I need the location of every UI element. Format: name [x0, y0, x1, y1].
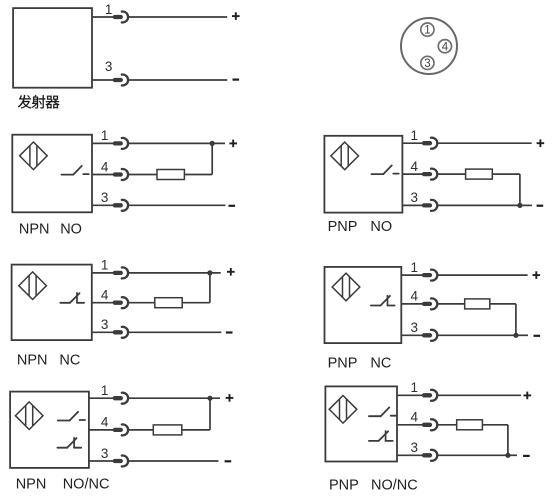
svg-text:3: 3 — [101, 190, 109, 205]
svg-text:PNP: PNP — [328, 219, 358, 235]
svg-text:PNP: PNP — [329, 477, 359, 493]
svg-text:4: 4 — [101, 288, 109, 303]
svg-text:1: 1 — [105, 2, 113, 17]
svg-text:NO/NC: NO/NC — [63, 476, 110, 492]
svg-text:NPN: NPN — [19, 221, 50, 237]
svg-text:4: 4 — [101, 159, 109, 174]
svg-text:1: 1 — [410, 128, 418, 143]
svg-text:1: 1 — [424, 25, 430, 37]
svg-text:4: 4 — [442, 41, 449, 53]
svg-text:3: 3 — [410, 190, 418, 205]
svg-text:1: 1 — [410, 260, 418, 275]
svg-text:3: 3 — [101, 446, 109, 461]
svg-text:PNP: PNP — [328, 355, 358, 371]
svg-text:NC: NC — [59, 353, 80, 369]
svg-text:3: 3 — [101, 317, 109, 332]
svg-text:4: 4 — [410, 159, 418, 174]
svg-text:1: 1 — [410, 380, 418, 395]
svg-text:1: 1 — [101, 128, 109, 143]
svg-text:3: 3 — [424, 58, 430, 70]
svg-text:NPN: NPN — [17, 353, 48, 369]
svg-text:4: 4 — [410, 410, 418, 425]
svg-text:NO: NO — [370, 219, 392, 235]
svg-text:NO/NC: NO/NC — [371, 477, 418, 493]
svg-text:NO: NO — [60, 221, 82, 237]
svg-text:NPN: NPN — [16, 476, 47, 492]
svg-text:3: 3 — [410, 320, 418, 335]
svg-text:1: 1 — [101, 383, 109, 398]
svg-text:4: 4 — [410, 289, 418, 304]
svg-text:3: 3 — [105, 59, 113, 74]
svg-text:1: 1 — [101, 258, 109, 273]
svg-text:4: 4 — [101, 415, 109, 430]
svg-text:3: 3 — [410, 440, 418, 455]
svg-text:NC: NC — [370, 355, 391, 371]
